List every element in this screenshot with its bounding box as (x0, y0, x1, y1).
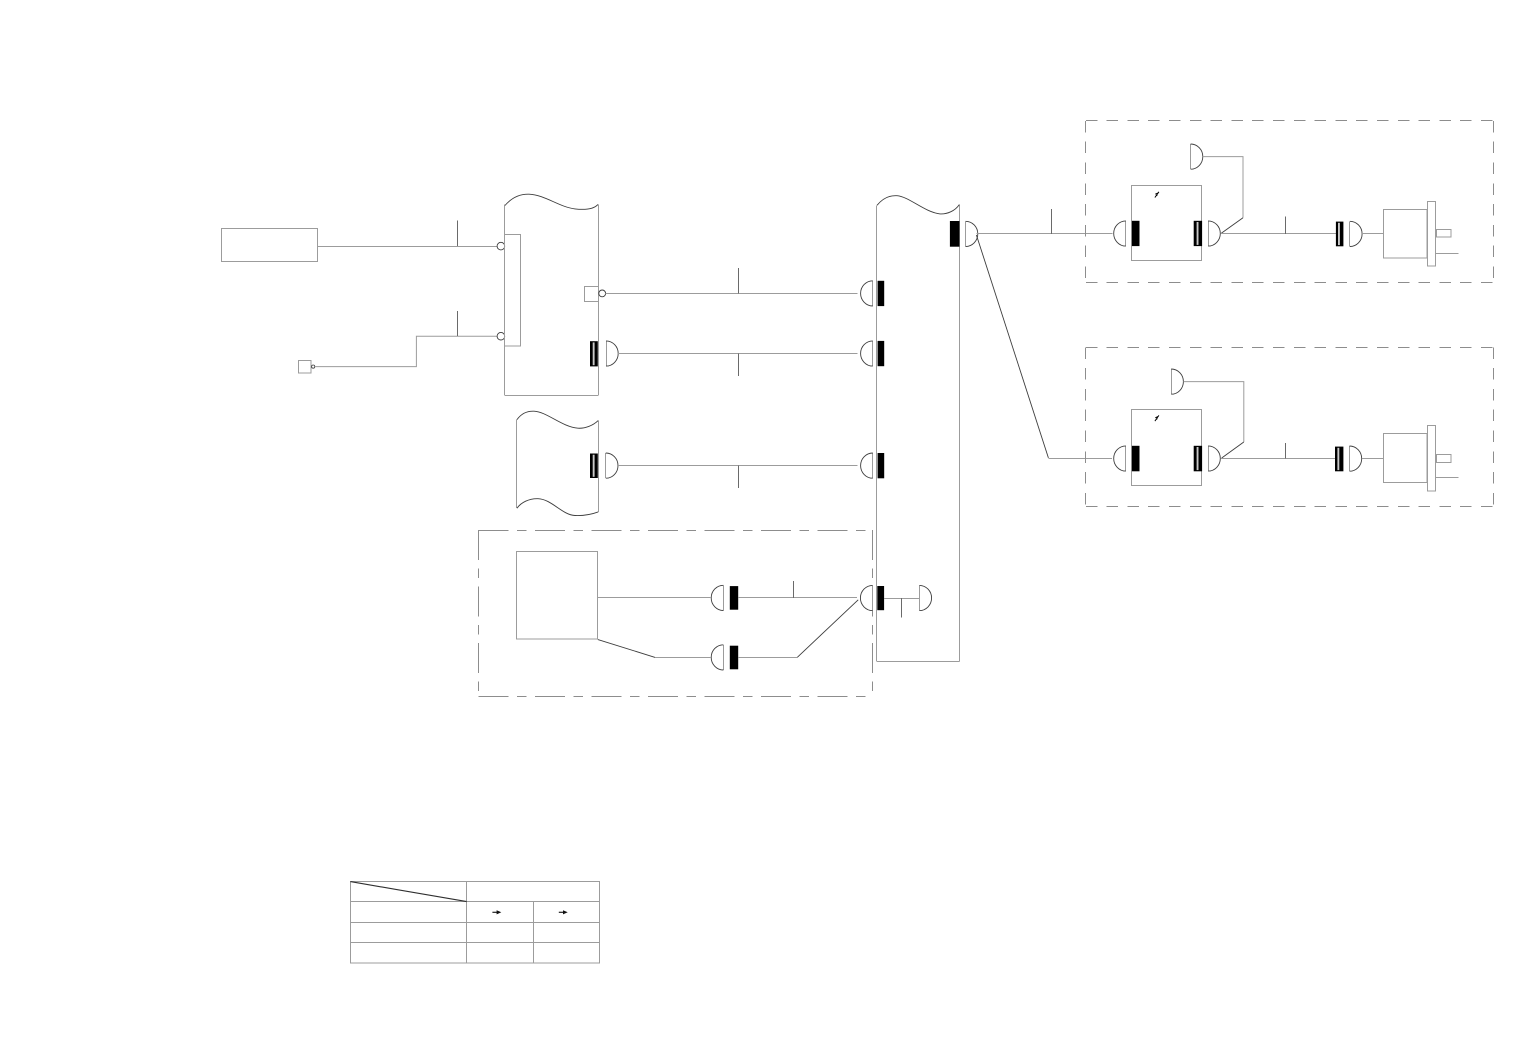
tick: wire marker (1051, 209, 1053, 234)
wire: to plug 2 body (1362, 458, 1384, 460)
wire: input unit to controller pin (318, 246, 497, 248)
bar: module 1 output with stripe (1194, 221, 1202, 246)
connector pair: junction input 2 (872, 341, 874, 366)
tick: wire marker (738, 466, 740, 488)
connector: module 1 output half-round (1208, 221, 1210, 246)
plug 2: upper prong (1437, 455, 1452, 463)
connector pair: junction output on right edge (950, 221, 960, 247)
connector pair: junction input 1 (872, 281, 874, 306)
connector: square socket on controller right edge (585, 287, 599, 302)
symbol: breaker mark inside module 2 (1155, 415, 1159, 421)
tick: wire marker (457, 311, 459, 336)
wire: square connector to controller pin (315, 336, 497, 366)
wire: sensor to connector pair A (598, 597, 711, 599)
plug 1: mains plug body (1384, 210, 1427, 258)
connector: module 2 output half-round (1208, 446, 1210, 471)
wire: to plug 1 body (1362, 233, 1384, 235)
device box: protection module 2 (1132, 410, 1202, 486)
tick: wire marker (738, 268, 740, 294)
tick: wire marker (1285, 443, 1287, 458)
node: pin circle lower (497, 332, 505, 340)
tick: wire marker (457, 221, 459, 247)
wire: diagonal branch to distribution module 2 (976, 235, 1048, 458)
table: arrow symbol col 3 (559, 911, 564, 913)
connector: half-round terminator inside junction (919, 585, 921, 610)
connector pair: controller output 2 (bar and half-round) (590, 341, 598, 366)
wire: pair B to merge diagonal (738, 657, 797, 659)
device box: auxiliary unit (broken top and bottom) (516, 420, 518, 509)
terminal strip inside controller (505, 235, 521, 347)
node: pin circle upper (497, 242, 505, 250)
tick: wire marker (738, 354, 740, 376)
tick: wire marker (901, 598, 903, 617)
connector pair A: half-round and bar (723, 585, 725, 610)
table: revision block (351, 882, 600, 963)
wire: controller to junction box pin 1 (606, 293, 858, 295)
connector pair: auxiliary output (bar and half-round) (590, 454, 598, 479)
wire: module 1 to plug connector (1220, 233, 1336, 235)
bar: module 2 output with stripe (1194, 446, 1202, 472)
enclosure: chain-dash boundary box (479, 530, 873, 532)
device box: controller unit with broken-edge top (504, 205, 506, 396)
plug 2: lower prong (1436, 477, 1458, 479)
connector: module 1 input half-round (1125, 221, 1127, 246)
connector: module 2 auxiliary half-round on top (1171, 369, 1173, 394)
device box: junction box with broken-edge top (876, 205, 878, 661)
wire: auxiliary to junction box pin 3 (618, 465, 857, 467)
connector: module 1 auxiliary half-round on top (1190, 144, 1192, 169)
connector: plug 1 half-round (1349, 221, 1351, 246)
connector: plug 2 half-round (1349, 446, 1351, 471)
wire: controller to junction box pin 2 (618, 353, 857, 355)
enclosure: dashed boundary box 1 (1086, 120, 1494, 122)
plug 2: mains plug body (1384, 434, 1427, 483)
connector pair: junction lower-left entry (872, 585, 874, 610)
tick: wire marker (793, 581, 795, 598)
table: arrow symbol col 2 (492, 911, 497, 913)
enclosure: dashed boundary box 2 (1086, 347, 1494, 349)
wire: junction output to distribution module 1 (976, 233, 1112, 235)
device box: input unit (222, 229, 318, 262)
bar: module 1 input (1132, 221, 1140, 246)
wire: pair A to junction lower pin (738, 597, 857, 599)
tick: wire marker (1285, 216, 1287, 234)
device box: protection module 1 (1132, 186, 1202, 261)
connector pair B: half-round and bar (723, 645, 725, 670)
device box: sensor unit inside enclosure (517, 552, 598, 640)
wire: module 2 to plug connector (1220, 458, 1335, 460)
terminal: small square connector (299, 361, 311, 374)
connector pair: junction input 3 (872, 453, 874, 478)
bar: plug 2 connector with stripe (1335, 447, 1343, 472)
wire: auxiliary loop of module 2 (1183, 382, 1243, 442)
table: header diagonal (350, 882, 466, 902)
wire: sensor diagonal to connector pair B (598, 640, 655, 658)
wire: auxiliary loop of module 1 (1203, 157, 1243, 218)
symbol: breaker mark inside module 1 (1155, 192, 1159, 198)
bar: plug 1 connector with stripe (1336, 222, 1344, 247)
plug 1: lower prong (1436, 253, 1458, 255)
plug 1: upper prong (1437, 230, 1452, 238)
wire: into junction interior (884, 598, 919, 600)
bar: module 2 input (1132, 446, 1140, 472)
connector: module 2 input half-round (1125, 446, 1127, 471)
